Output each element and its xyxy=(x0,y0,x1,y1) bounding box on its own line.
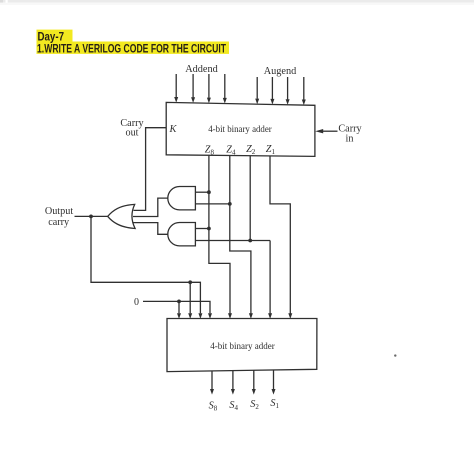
stray speck xyxy=(394,354,396,356)
svg-text:4-bit binary adder: 4-bit binary adder xyxy=(208,125,272,135)
wire carry-in into U1 xyxy=(322,130,337,132)
wire AND1 input b (Z4 tap) xyxy=(195,203,229,205)
junction node output-carry branch xyxy=(89,215,93,219)
svg-text:K: K xyxy=(169,124,178,135)
AND gate G2 (bottom, points left) xyxy=(168,223,196,246)
wire augend input B8 xyxy=(256,77,258,99)
svg-text:out: out xyxy=(125,127,138,138)
svg-text:carry: carry xyxy=(48,217,70,228)
wire Z4 vertical from U1 down, jog right into U2 xyxy=(230,156,251,314)
arrowheads correction inputs into U2 xyxy=(177,313,181,319)
title highlight line 2 xyxy=(37,42,230,54)
svg-text:Augend: Augend xyxy=(264,66,297,77)
wire Z2 vertical from U1 down to AND tap xyxy=(249,156,251,241)
wire U2 sum output S8 xyxy=(211,371,213,389)
wire augend input B4 xyxy=(271,77,273,99)
wire output-carry branch down to correction inputs xyxy=(91,216,200,313)
wire augend input B2 xyxy=(287,77,289,99)
svg-text:Output: Output xyxy=(45,206,73,217)
wire AND1 input a (Z8 tap) xyxy=(195,191,209,193)
wire carry branch at junction down into U2 xyxy=(189,282,191,313)
junction node Z8-AND2 xyxy=(207,227,211,231)
svg-text:in: in xyxy=(346,133,354,144)
wire augend input B1 xyxy=(303,77,305,100)
adder U1 box (4-bit binary adder, top) xyxy=(166,102,315,156)
junction node Z2-AND2 xyxy=(248,239,252,243)
junction node carry correction xyxy=(188,280,192,284)
junction node zero correction xyxy=(177,300,181,304)
wire zero branch down into U2 xyxy=(178,301,180,313)
arrowheads sum outputs xyxy=(210,389,214,395)
adder U2 box (4-bit binary adder, bottom) xyxy=(167,319,317,372)
wire Z8 vertical from U1 down, jog right into U2 xyxy=(209,155,230,313)
wire U2 sum output S1 xyxy=(273,370,275,389)
top scan band xyxy=(0,0,474,3)
arrowhead carry-in (points left) xyxy=(315,129,323,133)
svg-text:Addend: Addend xyxy=(185,64,218,75)
AND gate G1 (top, points left) xyxy=(168,187,196,210)
svg-text:1.WRITE A VERILOG CODE FOR THE: 1.WRITE A VERILOG CODE FOR THE CIRCUIT xyxy=(37,41,227,55)
svg-text:0: 0 xyxy=(134,297,139,308)
wire Z2 jog right into U2 xyxy=(269,241,271,314)
junction node Z8-AND1 xyxy=(207,190,211,194)
wire zero-constant line xyxy=(143,301,210,313)
wire OR output to Output carry label xyxy=(75,215,109,217)
wire AND2 input a (Z8 tap) xyxy=(195,228,209,230)
wire AND1 output to OR middle input xyxy=(133,198,168,216)
wire addend input A1 xyxy=(224,74,226,98)
wire Z1 from U1 down, jog right into U2 xyxy=(270,156,290,314)
wire AND2 input b (Z2 tap, extends to jog) xyxy=(195,240,270,242)
title highlight Day-7 xyxy=(37,30,73,42)
OR gate G3 (points left) xyxy=(108,204,135,228)
wire K carry-out from U1 to OR gate xyxy=(134,128,167,211)
wire addend input A8 xyxy=(175,74,177,97)
wire U2 sum output S2 xyxy=(253,370,255,389)
svg-text:4-bit binary adder: 4-bit binary adder xyxy=(210,342,275,352)
wire addend input A4 xyxy=(192,74,194,98)
wire addend input A2 xyxy=(208,74,210,98)
wire AND2 output to OR bottom input xyxy=(133,223,168,235)
wire U2 sum output S4 xyxy=(232,371,234,390)
arrowheads addend/augend into U1 xyxy=(174,97,178,103)
arrowheads Z inputs into U2 xyxy=(228,313,232,319)
junction node Z4-AND1 xyxy=(228,202,232,206)
